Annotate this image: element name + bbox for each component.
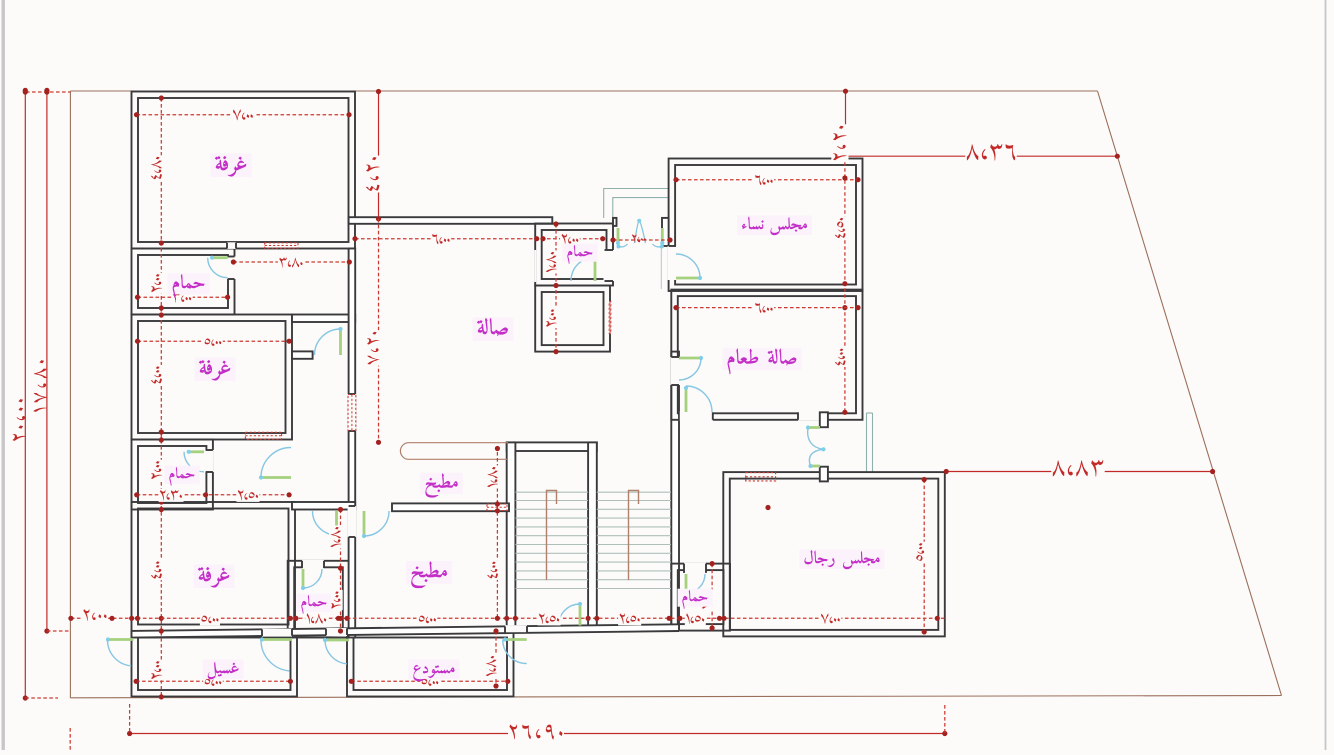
left outer dims (solid) (24, 90, 26, 698)
right spine wall (hall/right wing divider) (671, 352, 679, 628)
2,20 at x845.5 solid (845, 91, 847, 156)
spine wall door (kitchen) y507-536 (348, 506, 357, 537)
small dims - rotated (150, 155, 164, 180)
D3 R2 corridor door (339, 329, 342, 355)
<!- left gray screen edge -> (2, 0, 5, 750)
laundry top-wall door (262, 638, 292, 641)
storage top door (505, 625, 527, 632)
H1 door (right wall of H1, upper part) (227, 257, 236, 280)
EB door in right wall bottom (604, 250, 615, 281)
kitchen divider wall (392, 503, 509, 511)
tan rails with top hooks (547, 491, 557, 581)
MN door opening bottom-left corner (668, 246, 677, 280)
cross line at flight tops (515, 491, 588, 493)
H3 top door (302, 560, 324, 569)
D7 entrance double doors (shown part-open) (617, 228, 620, 243)
26,90 bottom solid + extensions (130, 733, 945, 735)
faint porch edge below vestibule (660, 246, 662, 289)
H2 door in right wall (upper portion) (205, 450, 214, 472)
H3 exterior door (325, 639, 349, 642)
small dims - horizontal (232, 108, 255, 122)
gap in R1 bottom wall above H1 right wall (227, 242, 236, 249)
D13 H3 door (302, 569, 305, 588)
entry bath + small room (535, 224, 613, 286)
house bottom wall (left part) (132, 624, 680, 637)
stair block (507, 442, 597, 451)
D4 H2 door (189, 450, 204, 453)
section: red dotted windows (265, 243, 298, 248)
dining->MR vestibule doors in dining bottom wall & MR top wall (798, 411, 826, 421)
D5 spine double door at kitchen (363, 511, 366, 536)
D11 dining->MR vestibule S-doors (808, 426, 820, 429)
section: rooms / walls (132, 92, 356, 249)
under-stair door (579, 604, 582, 626)
corridor door right of H2 (261, 476, 291, 479)
SR window in right wall (red dotted) y302-333 cut (609, 301, 611, 334)
section: labels: numbers (red) (13, 399, 27, 441)
hall top wall (349, 217, 553, 224)
H4 top door (684, 563, 706, 574)
interior dashed dims (137, 114, 350, 116)
D14 H4 door (685, 574, 688, 593)
MR top wall / SP bottom wall passage stubs (820, 412, 828, 427)
top 4,20 solid + 7,20 dashed at x378.5 (378, 92, 380, 219)
D6 EB door (594, 257, 597, 281)
spine wall window piece (red dotted) gap y395-430 cut (348, 394, 357, 431)
laundry top door (262, 629, 292, 637)
D1 H1 door (212, 256, 228, 259)
right spine door gaps: hall->dining lower door y355-385 & y386-412 (670, 357, 680, 385)
right wing rooms (669, 159, 863, 292)
right screen edge line (1325, 0, 1327, 750)
treads right flight (597, 500, 671, 502)
8,36 solid (846, 155, 1118, 157)
section: teal entrance steps (top, near womens entrance) (604, 189, 669, 219)
section: labels: rooms (magenta) (211, 153, 252, 177)
section: plot boundary (70, 90, 1097, 92)
misc dot (765, 505, 770, 510)
corridor top wall (right of R2 top) (292, 315, 355, 323)
corridor bottom wall R2/R3 (292, 502, 355, 510)
H3 exterior door gap (326, 628, 347, 636)
middle vertical spine wall (349, 249, 356, 638)
D10 lower door (685, 388, 688, 412)
D8 MN door (676, 277, 700, 280)
vestibule jambs (613, 218, 617, 226)
kitchen counter pill (400, 443, 508, 460)
R2 right wall door stub (into corridor) (292, 351, 313, 358)
teal line right of dining vestibule (866, 413, 868, 472)
D9 hall->dining upper door (679, 357, 701, 360)
8,83 solid (946, 471, 1212, 473)
D15 laundry exterior door (left of house) (108, 638, 134, 641)
treads left flight (full width between walls) (515, 500, 588, 502)
storage door (505, 638, 527, 641)
